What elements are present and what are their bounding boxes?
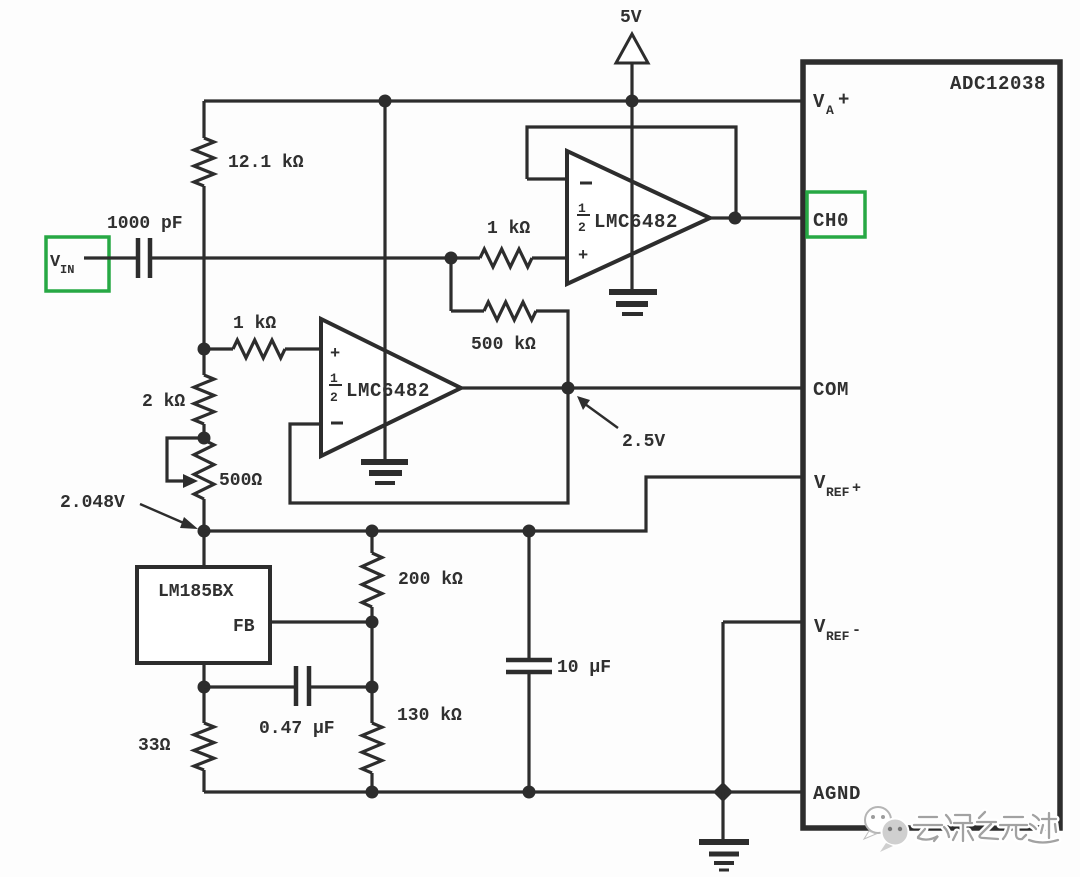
svg-text:1 kΩ: 1 kΩ bbox=[487, 219, 530, 239]
wire FB to divider bbox=[269, 620, 372, 623]
svg-text:FB: FB bbox=[233, 617, 255, 637]
node dot 1k tap bbox=[198, 343, 211, 356]
svg-text:10 μF: 10 μF bbox=[557, 658, 611, 678]
svg-text:-: - bbox=[852, 622, 861, 639]
svg-text:REF: REF bbox=[826, 629, 850, 644]
wire left vertical column x=204 upper bbox=[202, 101, 205, 138]
svg-text:+: + bbox=[578, 247, 588, 266]
wire VREF- trace bbox=[723, 620, 801, 623]
wire x=204 pot to node 2.048V bbox=[202, 499, 205, 567]
node dot pot top tap bbox=[198, 432, 211, 445]
svg-text:LM185BX: LM185BX bbox=[158, 582, 234, 602]
svg-text:5V: 5V bbox=[620, 8, 642, 28]
resistor R6 1 kOhm (lower op-amp input) bbox=[233, 340, 285, 358]
node dot 2.048V bbox=[198, 525, 211, 538]
node dot FB junction bbox=[366, 616, 379, 629]
pin CH0 green box bbox=[807, 192, 865, 237]
node dot COM junction 2.5V bbox=[562, 382, 575, 395]
wire VREF+ trace bbox=[204, 477, 801, 531]
watermark text 云深之无迹 hand strokes bbox=[914, 817, 942, 841]
resistor R5 500 kOhm bbox=[484, 302, 536, 320]
wire x=204 from R1 to 2k bbox=[202, 186, 205, 375]
svg-text:+: + bbox=[838, 89, 850, 111]
svg-text:+: + bbox=[852, 480, 861, 497]
svg-text:AGND: AGND bbox=[813, 783, 861, 805]
ground U2 bbox=[361, 459, 408, 465]
node junction dot VIN/500k bbox=[445, 252, 458, 265]
svg-text:200 kΩ: 200 kΩ bbox=[398, 570, 463, 590]
svg-text:COM: COM bbox=[813, 379, 849, 401]
svg-text:A: A bbox=[826, 103, 834, 118]
node dot x372 on vref line bbox=[366, 525, 379, 538]
svg-text:2 kΩ: 2 kΩ bbox=[142, 392, 185, 412]
node dot cap right bbox=[366, 681, 379, 694]
capacitor C3 10 uF bbox=[527, 531, 530, 658]
U1 minus sign bbox=[580, 182, 592, 185]
U1 feedback loop wire bbox=[527, 127, 736, 218]
svg-text:1000 pF: 1000 pF bbox=[107, 214, 183, 234]
node dot x385 rail bbox=[379, 95, 392, 108]
U2 output wire to COM bbox=[461, 386, 801, 389]
resistor R7 200 kOhm bbox=[362, 553, 382, 607]
wire VIN line to +input R bbox=[152, 256, 480, 259]
U2 minus input stub and feedback loop bbox=[290, 388, 568, 503]
svg-text:2: 2 bbox=[330, 390, 338, 405]
node dot cap left bbox=[198, 681, 211, 694]
U2 minus sign bbox=[331, 422, 343, 425]
resistor R1 12.1 kOhm bbox=[194, 138, 214, 186]
svg-text:1: 1 bbox=[578, 201, 586, 216]
svg-text:500Ω: 500Ω bbox=[219, 471, 262, 491]
node dot 10uF bottom bbox=[523, 786, 536, 799]
svg-text:LMC6482: LMC6482 bbox=[346, 380, 430, 402]
wire VIN stub bbox=[84, 256, 136, 259]
node dot 5V rail bbox=[626, 95, 639, 108]
op-amp U1B triangle LMC6482 bottom bbox=[321, 319, 461, 456]
wire x=204 between 2k and 500 pot bbox=[202, 424, 205, 440]
svg-text:130 kΩ: 130 kΩ bbox=[397, 706, 462, 726]
node diamond AGND junction bbox=[713, 782, 733, 802]
pot wiper arm wire bbox=[167, 438, 204, 481]
pot wiper arrowhead bbox=[183, 474, 198, 488]
U1 output wire to CH0 bbox=[710, 216, 801, 219]
capacitor C1 1000 pF bbox=[136, 238, 141, 278]
wire supply column x=385 bbox=[383, 101, 386, 350]
watermark logo bubbles bbox=[864, 807, 909, 852]
power 5V symbol bbox=[616, 34, 648, 63]
wire top 5V rail bbox=[204, 99, 801, 102]
U1 minus input stub bbox=[527, 177, 567, 180]
svg-text:2: 2 bbox=[578, 220, 586, 235]
wire supply column x=385 through U2 to ground bbox=[383, 350, 386, 459]
voltage reference U3 LM185BX box bbox=[137, 567, 270, 663]
annotation arrow 2.5V bbox=[585, 404, 618, 428]
svg-text:LMC6482: LMC6482 bbox=[594, 211, 678, 233]
node dot U1 output bbox=[729, 212, 742, 225]
resistor R8 130 kOhm bbox=[362, 723, 382, 773]
wire 500k left leg down bbox=[449, 258, 452, 311]
svg-text:2.048V: 2.048V bbox=[60, 493, 125, 513]
svg-text:ADC12038: ADC12038 bbox=[950, 73, 1046, 95]
svg-text:33Ω: 33Ω bbox=[138, 736, 171, 756]
wire 500k right leg to COM node bbox=[536, 311, 568, 388]
wire divider column x=372 bbox=[370, 531, 373, 553]
svg-text:V: V bbox=[813, 91, 825, 113]
node dot 130k bottom bbox=[366, 786, 379, 799]
svg-text:+: + bbox=[330, 345, 340, 364]
node VIN green box bbox=[46, 237, 109, 291]
IC ADC12038 box bbox=[803, 62, 1060, 828]
wire R4 to op-amp plus input bbox=[532, 256, 567, 259]
svg-text:1 kΩ: 1 kΩ bbox=[233, 314, 276, 334]
resistor R2 2 kOhm bbox=[194, 375, 214, 424]
ground AGND bbox=[721, 792, 724, 839]
svg-text:REF: REF bbox=[826, 485, 850, 500]
svg-text:500 kΩ: 500 kΩ bbox=[471, 335, 536, 355]
capacitor C2 0.47 uF bbox=[204, 685, 294, 688]
svg-text:V: V bbox=[814, 616, 826, 638]
resistor R4 1 kOhm (top op-amp input) bbox=[480, 249, 532, 267]
op-amp U1A triangle LMC6482 top bbox=[567, 151, 710, 284]
svg-text:0.47 μF: 0.47 μF bbox=[259, 719, 335, 739]
svg-text:IN: IN bbox=[60, 263, 74, 277]
potentiometer R3 500 Ohm bbox=[194, 440, 214, 499]
svg-text:1: 1 bbox=[330, 371, 338, 386]
wire 5V stem through U1 to ground bbox=[630, 63, 633, 289]
node dot x529 on vref line bbox=[523, 525, 536, 538]
svg-text:2.5V: 2.5V bbox=[622, 432, 665, 452]
ground U1 bbox=[609, 289, 657, 295]
svg-text:V: V bbox=[814, 472, 826, 494]
wire bottom AGND rail bbox=[204, 790, 801, 793]
svg-text:CH0: CH0 bbox=[813, 210, 849, 232]
resistor R9 33 Ohm bbox=[194, 723, 214, 770]
svg-text:12.1 kΩ: 12.1 kΩ bbox=[228, 153, 304, 173]
wire LM185 anode down bbox=[202, 662, 205, 723]
